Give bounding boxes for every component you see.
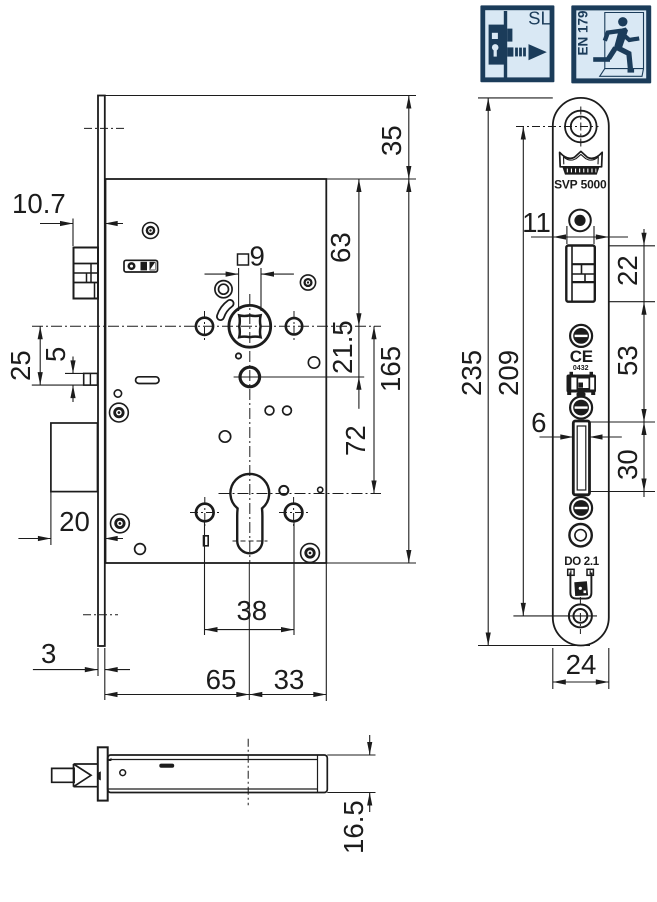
dim 35 [376,96,411,180]
svg-text:35: 35 [376,125,407,156]
dim 24 [553,648,609,689]
faceplate front outline [553,98,609,646]
tiny hole right [318,487,323,492]
svg-text:EN 179: EN 179 [576,10,591,55]
dark center hole [569,210,591,232]
horizontal centerline follower [32,325,381,327]
dim 5 [40,347,84,402]
SL self-locking icon [480,5,554,82]
svg-text:DO 2.1: DO 2.1 [564,556,600,568]
dim square 9 [205,241,294,312]
case bottom extension line [326,562,416,564]
latch pivot dark [97,771,101,780]
dim 53 and 30 [590,345,656,491]
small hole left [114,390,121,397]
small hole near cylinder [279,486,288,495]
torx screw lower-left [111,514,130,533]
svg-text:22: 22 [612,255,643,286]
dim 25 [5,326,97,385]
svg-text:30: 30 [612,449,643,480]
svg-text:CE: CE [570,347,593,366]
svg-text:33: 33 [274,664,305,695]
dim 3 [33,638,130,700]
slotted screw middle [570,397,592,419]
top fixing screw [516,107,599,147]
handle hole right [286,311,302,342]
vertical centerline through follower [248,294,251,700]
SVP 5000 label [554,178,607,192]
dim 63 [325,179,362,326]
svg-text:SL: SL [528,8,551,29]
svg-text:65: 65 [206,664,237,695]
svg-text:53: 53 [612,345,643,376]
small rect lower-left [204,536,209,546]
slotted screw lower [570,497,592,519]
handle hole left [196,311,213,342]
CE mark [570,347,593,372]
slotted screw upper [570,325,592,347]
dim 16.5 [327,735,375,854]
svg-text:63: 63 [325,232,356,263]
slot hole [136,377,159,384]
curved slot [221,304,231,317]
dim 165 [375,179,411,563]
svg-text:16.5: 16.5 [338,800,369,854]
corner wedge [108,758,112,761]
dim 209 [493,127,597,616]
dim 10.7 [12,188,123,246]
dim 235 [456,98,590,646]
svg-text:235: 235 [456,350,487,396]
deadlatch pin [84,373,98,385]
bottom view faceplate [98,747,108,800]
svg-text:209: 209 [493,350,524,396]
bottom view slot [159,764,174,768]
svg-text:38: 38 [236,595,267,626]
faceplate top extension line [98,95,416,97]
small pin [236,353,241,358]
svg-text:10.7: 10.7 [12,188,66,219]
svg-text:165: 165 [375,346,406,392]
dim 11 [522,207,628,244]
bottom view hole [120,770,126,776]
bottom fixing screw [569,597,592,634]
bearing ring [215,281,232,298]
lock case outline [106,179,327,563]
dim 65 and 33 [105,563,327,701]
svg-text:11: 11 [522,207,551,238]
lower handle hole right [279,497,309,528]
plain hole [569,524,591,546]
deadbolt window front [573,421,589,495]
EN 179 escape-door icon [571,5,651,83]
spindle follower with 9mm square [229,305,271,347]
torx screw top-right [300,275,315,290]
bottom view centerline [247,739,249,806]
svg-text:6: 6 [531,407,546,438]
centerline top screw axis [84,127,125,129]
fixing hole 21.5 [234,367,365,387]
dim 6 [531,407,622,440]
dim 22 chain [609,229,655,497]
hole bottom-left [135,544,146,555]
bottom view case [108,755,328,793]
torx screw top-left [143,223,159,239]
svg-text:24: 24 [566,649,597,680]
bottom view latch bolt [52,764,98,787]
faceplate side view [98,96,105,647]
latch window front [566,246,595,302]
centerline bottom screw axis [83,614,118,616]
lower handle hole left [190,497,220,528]
latch bolt side view [74,248,99,299]
contact block [124,260,158,272]
certification icon upper [567,372,597,397]
svg-text:5: 5 [40,347,71,362]
certification icon lower [568,569,594,598]
torx screw lower-right [301,544,320,563]
dim 20 [18,492,123,545]
torx screw mid-left [110,403,129,422]
small hole pair [265,406,291,415]
hole below follower [219,431,230,442]
svg-text:3: 3 [41,638,56,669]
svg-text:72: 72 [340,425,371,456]
case top extension line [326,178,416,180]
dim 38 [205,520,295,635]
dim 21.5 [327,320,362,409]
svg-text:25: 25 [5,350,36,381]
DO 2.1 label [564,556,600,568]
svg-text:SVP 5000: SVP 5000 [554,178,607,192]
hole mid-right [308,357,319,368]
dim 72 [340,326,377,493]
svg-text:9: 9 [250,241,265,272]
svg-text:20: 20 [59,506,90,537]
DORMA crown logo [560,151,603,174]
profile cylinder hole [230,474,269,553]
svg-text:21.5: 21.5 [327,320,358,374]
cylinder horizontal centerline [219,493,382,495]
svg-text:0432: 0432 [573,365,589,372]
deadbolt thrown [51,423,98,492]
